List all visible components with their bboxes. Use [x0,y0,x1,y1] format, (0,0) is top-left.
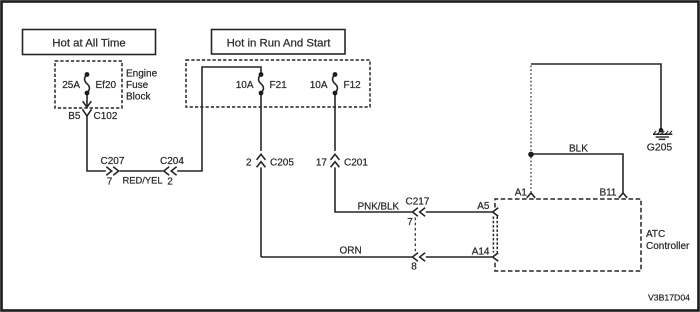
svg-text:Hot at All Time: Hot at All Time [52,38,125,50]
svg-text:B11: B11 [599,188,616,199]
svg-text:C205: C205 [270,158,294,169]
svg-text:ORN: ORN [340,246,362,257]
svg-text:17: 17 [316,158,328,169]
svg-text:BLK: BLK [569,144,588,155]
svg-text:25A: 25A [62,80,80,91]
svg-text:C201: C201 [344,158,368,169]
svg-text:C204: C204 [160,156,184,167]
svg-text:A1: A1 [515,188,528,199]
svg-text:8: 8 [411,262,417,273]
svg-text:C102: C102 [94,111,118,122]
svg-text:F12: F12 [344,80,362,91]
svg-text:A5: A5 [477,201,490,212]
svg-text:Fuse: Fuse [126,80,149,91]
svg-text:7: 7 [407,217,413,228]
svg-text:Engine: Engine [126,69,158,80]
svg-text:C207: C207 [101,156,125,167]
svg-text:V3B17D04: V3B17D04 [648,293,690,303]
svg-text:G205: G205 [647,143,673,154]
svg-text:B5: B5 [68,111,81,122]
svg-text:Controller: Controller [646,241,690,252]
svg-text:2: 2 [246,158,252,169]
svg-text:Ef20: Ef20 [96,80,117,91]
svg-text:C217: C217 [406,197,430,208]
svg-text:ATC: ATC [646,229,665,240]
svg-text:10A: 10A [236,80,254,91]
svg-text:RED/YEL: RED/YEL [122,175,162,186]
svg-text:Block: Block [126,92,151,103]
svg-text:7: 7 [107,177,113,188]
svg-text:F21: F21 [270,80,288,91]
svg-text:PNK/BLK: PNK/BLK [358,202,400,213]
svg-text:10A: 10A [310,80,328,91]
svg-text:A14: A14 [472,247,490,258]
svg-text:2: 2 [167,177,173,188]
svg-text:Hot in Run And Start: Hot in Run And Start [227,38,332,50]
